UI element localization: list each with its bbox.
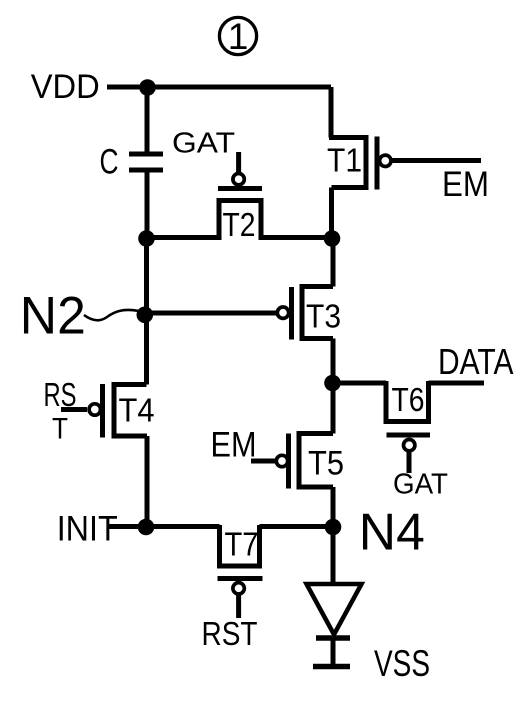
svg-text:T1: T1	[327, 142, 362, 179]
svg-text:T3: T3	[306, 298, 341, 335]
svg-text:T2: T2	[223, 206, 256, 243]
svg-text:RST: RST	[202, 615, 258, 652]
svg-text:1: 1	[228, 16, 249, 57]
svg-text:N2: N2	[20, 286, 86, 345]
svg-text:RS: RS	[44, 376, 77, 413]
svg-text:VSS: VSS	[374, 643, 430, 684]
svg-text:EM: EM	[211, 426, 257, 465]
svg-text:T7: T7	[225, 526, 259, 563]
svg-text:T: T	[52, 413, 68, 446]
svg-text:EM: EM	[442, 165, 489, 204]
svg-text:T5: T5	[308, 444, 344, 482]
svg-text:C: C	[100, 141, 119, 181]
svg-text:DATA: DATA	[438, 341, 514, 382]
svg-text:INIT: INIT	[57, 509, 118, 548]
svg-text:GAT: GAT	[172, 127, 235, 159]
svg-text:T4: T4	[119, 392, 155, 429]
svg-text:N4: N4	[359, 503, 425, 561]
svg-text:VDD: VDD	[31, 68, 100, 106]
svg-text:T6: T6	[392, 381, 425, 418]
svg-text:GAT: GAT	[393, 469, 448, 501]
